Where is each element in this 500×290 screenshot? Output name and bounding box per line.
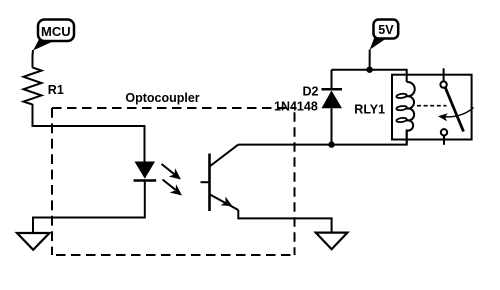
- relay arm motion arrow: [438, 108, 474, 122]
- relay switch arm: [445, 88, 463, 132]
- relay bottom contact pin: [443, 136, 445, 145]
- wire MCU to R1: [32, 50, 35, 68]
- wire 5V top rail: [332, 70, 407, 82]
- resistor R1: [24, 68, 42, 105]
- wire collector rail to relay coil: [238, 131, 406, 145]
- wire R1 to LED anode: [33, 104, 145, 162]
- junction diode-collector rail: [328, 141, 334, 147]
- svg-text:RLY1: RLY1: [354, 103, 385, 117]
- LED (optocoupler emitter): [134, 162, 157, 181]
- junction 5V-rail: [366, 67, 372, 73]
- relay top contact: [440, 81, 446, 87]
- svg-text:MCU: MCU: [41, 24, 71, 39]
- svg-text:R1: R1: [48, 83, 64, 97]
- svg-text:Optocoupler: Optocoupler: [125, 91, 199, 105]
- ground (right): [316, 233, 348, 250]
- wire LED cathode to ground: [33, 181, 145, 234]
- relay coil: [396, 82, 415, 145]
- relay RLY1 box: [392, 75, 472, 140]
- node 5V callout: [370, 20, 399, 70]
- light arrow 2: [163, 180, 183, 196]
- light arrow 1: [162, 164, 182, 180]
- wire emitter to ground: [238, 210, 331, 233]
- node MCU callout: [33, 20, 74, 51]
- dashed coil-armature link: [417, 105, 447, 107]
- phototransistor (optocoupler detector): [201, 145, 239, 211]
- ground (left): [17, 233, 50, 250]
- svg-text:D2: D2: [303, 85, 319, 99]
- relay bottom contact: [441, 129, 447, 135]
- optocoupler dashed box: [52, 108, 295, 255]
- relay top contact pin: [443, 68, 445, 81]
- diode D2: [322, 70, 343, 145]
- svg-text:1N4148: 1N4148: [274, 100, 318, 114]
- svg-text:5V: 5V: [378, 23, 394, 37]
